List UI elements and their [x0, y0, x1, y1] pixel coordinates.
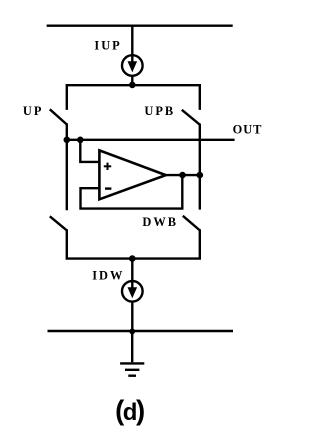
svg-text:(d): (d): [115, 395, 144, 426]
svg-text:DWB: DWB: [142, 215, 178, 229]
svg-text:OUT: OUT: [233, 122, 263, 136]
svg-text:IDW: IDW: [92, 269, 124, 283]
svg-text:UP: UP: [23, 104, 44, 118]
svg-text:UPB: UPB: [144, 104, 175, 118]
svg-text:IUP: IUP: [94, 39, 121, 53]
